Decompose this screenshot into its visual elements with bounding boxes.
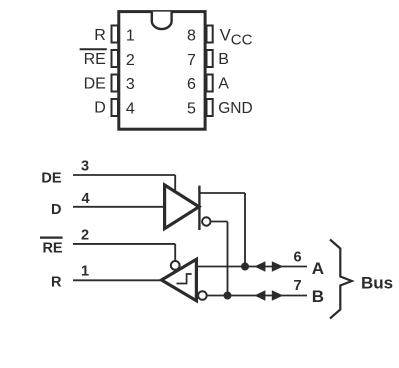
svg-text:2: 2 — [81, 227, 89, 243]
svg-text:1: 1 — [81, 264, 89, 280]
svg-text:Bus: Bus — [361, 274, 393, 293]
svg-text:1: 1 — [126, 28, 135, 45]
svg-text:B: B — [312, 287, 324, 306]
svg-text:6: 6 — [187, 76, 196, 93]
svg-text:R: R — [51, 274, 62, 290]
svg-text:CC: CC — [231, 31, 253, 48]
svg-text:RE: RE — [42, 241, 62, 257]
svg-text:GND: GND — [218, 100, 252, 117]
svg-text:B: B — [218, 51, 229, 68]
svg-text:V: V — [220, 27, 231, 45]
svg-text:8: 8 — [187, 28, 196, 45]
svg-text:2: 2 — [126, 52, 135, 69]
svg-text:RE: RE — [84, 51, 106, 68]
svg-text:D: D — [94, 100, 106, 117]
svg-text:4: 4 — [81, 191, 89, 207]
svg-text:A: A — [312, 259, 324, 278]
svg-text:A: A — [218, 76, 229, 93]
svg-text:5: 5 — [187, 101, 196, 118]
svg-text:DE: DE — [84, 75, 106, 92]
svg-text:R: R — [94, 27, 106, 44]
svg-text:3: 3 — [126, 76, 135, 93]
svg-text:6: 6 — [293, 249, 301, 265]
svg-text:DE: DE — [41, 171, 61, 187]
svg-text:4: 4 — [126, 101, 135, 118]
svg-text:7: 7 — [187, 52, 196, 69]
svg-text:D: D — [51, 202, 61, 218]
svg-text:3: 3 — [81, 159, 89, 175]
svg-text:7: 7 — [293, 278, 301, 294]
